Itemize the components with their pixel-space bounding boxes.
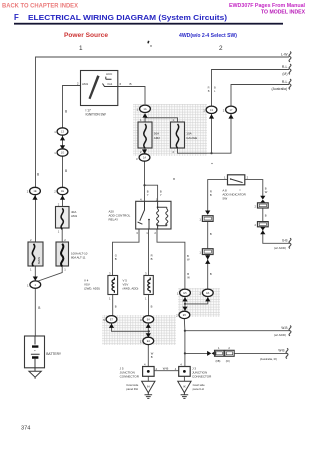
wire ignition switch AM1 feed xyxy=(63,86,81,128)
fuse 40A AM1 element xyxy=(61,208,63,229)
relay coil junction dots xyxy=(157,206,159,208)
connector 2 above battery xyxy=(30,281,41,288)
svg-text:2: 2 xyxy=(247,176,249,180)
svg-text:(w/ ADD): (w/ ADD) xyxy=(274,246,286,250)
svg-text:TO MODEL INDEX: TO MODEL INDEX xyxy=(261,10,305,16)
VSV V5 coil element xyxy=(148,278,150,293)
svg-text:RELAY: RELAY xyxy=(109,218,119,222)
svg-text:SW: SW xyxy=(222,197,227,201)
svg-text:2: 2 xyxy=(54,190,56,194)
junction dot ground rail left xyxy=(148,330,150,332)
svg-text:1E: 1E xyxy=(33,189,36,193)
svg-text:ELECTRICAL WIRING DIAGRAM (Sys: ELECTRICAL WIRING DIAGRAM (System Circui… xyxy=(28,13,228,22)
svg-text:W: W xyxy=(187,258,190,262)
svg-text:R: R xyxy=(210,190,212,194)
svg-text:CONNECTOR: CONNECTOR xyxy=(192,375,212,379)
svg-text:MAIN: MAIN xyxy=(37,257,41,264)
ground triangle IH xyxy=(142,381,155,393)
wire relay pin 3 to VSV V4 xyxy=(113,229,140,276)
bowtie arrows below left chain xyxy=(205,255,210,264)
VSV V5 box xyxy=(144,276,153,295)
svg-text:Y: Y xyxy=(147,193,149,197)
svg-text:B: B xyxy=(115,257,117,261)
svg-text:1: 1 xyxy=(79,45,83,52)
wire 40A AM1 fuse to ALT fusible link xyxy=(61,228,63,242)
shaded zone around fuses xyxy=(133,104,207,156)
svg-text:2: 2 xyxy=(219,45,223,52)
svg-text:W: W xyxy=(265,190,268,194)
wire V4 to connector E7 xyxy=(112,295,114,316)
wire J5 ground stub xyxy=(147,376,149,381)
inline connector ED left lower xyxy=(202,249,213,255)
arrow below connector 17 xyxy=(228,114,233,118)
bowtie arrows on W-B Australia wire xyxy=(207,351,216,356)
ground below battery xyxy=(29,368,41,379)
svg-text:2: 2 xyxy=(58,203,60,207)
svg-text:2: 2 xyxy=(64,238,66,242)
fuse 10A GAUGE box xyxy=(171,122,185,148)
svg-text:B: B xyxy=(65,110,67,114)
wire between ED boxes right chain xyxy=(262,208,264,222)
svg-text:B: B xyxy=(210,193,212,197)
svg-text:Power Source: Power Source xyxy=(64,33,109,39)
svg-text:1A: 1A xyxy=(143,107,146,111)
svg-text:1A: 1A xyxy=(143,156,146,160)
speck marks in diagram xyxy=(173,178,174,179)
svg-text:2: 2 xyxy=(30,238,32,242)
arrow below E5 xyxy=(182,297,187,301)
junction dot W-B ADD xyxy=(184,330,186,332)
svg-text:E5: E5 xyxy=(183,291,187,295)
arrow above connector E5 lower xyxy=(182,307,187,311)
svg-text:(4WD, ADD): (4WD, ADD) xyxy=(123,287,139,291)
wire J5 to J3 (W-B ground rail) xyxy=(154,370,179,372)
wire between ED boxes left chain xyxy=(207,221,209,248)
connector 1G ignition column lower xyxy=(57,149,68,156)
break symbol L-W wire xyxy=(289,52,291,62)
wire main bus left and top (battery feed, L-W) xyxy=(36,57,290,242)
arrow between ignition column connectors xyxy=(60,136,65,140)
svg-text:B: B xyxy=(151,257,153,261)
svg-text:(I/I): (I/I) xyxy=(226,359,230,363)
svg-text:(2WD, ADD): (2WD, ADD) xyxy=(84,287,100,291)
wire relay pin 4 to VSV V5 xyxy=(148,229,150,276)
bowtie arrows below right chain xyxy=(260,227,265,234)
connector E4 lower xyxy=(143,337,154,344)
svg-text:B: B xyxy=(37,173,39,177)
wire connector 13 down to gauge wire xyxy=(211,113,213,153)
fusible link MAIN box xyxy=(28,242,43,266)
wire E5 lower down to W-B branches and J3 xyxy=(183,318,186,366)
wire V5 to connector E4 xyxy=(148,295,150,316)
svg-text:IG1: IG1 xyxy=(108,82,113,86)
connector 1A (fuse feed) xyxy=(140,105,151,112)
fusible link MAIN element xyxy=(32,244,34,266)
svg-text:1: 1 xyxy=(218,346,220,350)
ignition switch ACC contact xyxy=(106,77,112,80)
connector 1A lower xyxy=(139,154,150,161)
wire E5 to ground junction xyxy=(185,296,208,304)
svg-text:EWD307F Pages From Manual: EWD307F Pages From Manual xyxy=(229,3,305,9)
svg-text:2: 2 xyxy=(77,82,79,86)
svg-text:B: B xyxy=(187,254,189,258)
wire R-L (I/I) xyxy=(212,70,290,114)
svg-text:B: B xyxy=(265,214,267,218)
svg-text:4: 4 xyxy=(144,362,146,366)
VSV V4 box xyxy=(108,276,118,295)
fusible link ALT element xyxy=(61,244,63,266)
svg-text:3: 3 xyxy=(136,231,138,235)
svg-text:1: 1 xyxy=(146,231,148,235)
wire W-B (w/ ADD) to right xyxy=(185,330,290,332)
svg-text:B: B xyxy=(65,169,67,173)
svg-text:W-B: W-B xyxy=(281,326,287,330)
svg-text:2: 2 xyxy=(228,346,230,350)
svg-text:AM2: AM2 xyxy=(154,136,161,140)
battery plates xyxy=(31,336,40,368)
svg-text:BATTERY: BATTERY xyxy=(46,352,62,356)
svg-text:1: 1 xyxy=(145,297,147,301)
chevron arrow on left chain xyxy=(205,210,210,214)
svg-text:2: 2 xyxy=(176,314,178,318)
svg-text:4: 4 xyxy=(180,362,182,366)
shaded zone around connectors E (right) xyxy=(178,288,220,317)
wire indicator sw left pin chain xyxy=(208,180,228,211)
svg-text:1: 1 xyxy=(199,218,201,222)
svg-text:B: B xyxy=(147,190,149,194)
svg-text:4WD(w/o 2-4 Select SW): 4WD(w/o 2-4 Select SW) xyxy=(179,33,237,39)
wire ignition IG1 to connector 1A xyxy=(118,87,145,105)
shaded zone around connectors E (left) xyxy=(102,315,176,345)
svg-text:4: 4 xyxy=(140,197,142,201)
svg-text:1E: 1E xyxy=(61,189,64,193)
connector 17 (R-L Australia wire) xyxy=(226,106,237,113)
ground triangle IK xyxy=(178,381,191,393)
svg-text:panel RH: panel RH xyxy=(126,387,138,391)
svg-text:W-B: W-B xyxy=(278,349,284,353)
inline connector ED left upper xyxy=(202,216,213,222)
fusible link ALT box xyxy=(56,242,69,266)
arrow below E4 xyxy=(146,324,151,328)
junction dot on gauge wire xyxy=(210,152,212,154)
svg-text:1: 1 xyxy=(54,151,56,155)
junction connector J3 box xyxy=(179,367,191,377)
break symbol G-B wire xyxy=(289,238,291,248)
svg-text:1G: 1G xyxy=(61,151,64,155)
svg-text:E5: E5 xyxy=(183,313,187,317)
relay A20 box xyxy=(136,201,171,229)
svg-text:W: W xyxy=(187,276,190,280)
wire indicator sw right pin chain xyxy=(245,180,263,199)
svg-text:(Australia): (Australia) xyxy=(272,87,287,91)
svg-text:B: B xyxy=(208,89,210,93)
wire right chain to G-B break xyxy=(263,227,290,244)
svg-text:E4: E4 xyxy=(147,339,151,343)
arrow below main bus connector xyxy=(32,195,37,199)
svg-text:B: B xyxy=(151,355,153,359)
wire ALT fusible link to battery junction xyxy=(37,266,62,282)
svg-text:E6: E6 xyxy=(206,291,210,295)
break symbol W-B ADD wire xyxy=(289,326,291,336)
svg-text:F: F xyxy=(14,13,19,22)
svg-text:ACC: ACC xyxy=(106,72,113,76)
break symbol W-B Australia wire xyxy=(286,348,288,358)
ground bars IH xyxy=(145,393,153,399)
svg-text:B: B xyxy=(115,305,117,309)
speck marks xyxy=(147,41,149,44)
svg-text:4: 4 xyxy=(175,367,177,371)
connector E7 below V4 xyxy=(106,316,117,323)
svg-text:1: 1 xyxy=(224,176,226,180)
inline connector ED right lower xyxy=(258,222,269,227)
fuse 40A AM1 box xyxy=(56,207,70,229)
connector E6 xyxy=(202,289,213,296)
arrow above connector E4 lower xyxy=(146,333,151,337)
svg-text:374: 374 xyxy=(21,426,30,432)
wire connector to 40A AM1 fuse xyxy=(62,195,64,207)
relay coil xyxy=(157,201,168,229)
wire 1G connector to fuse AM1 xyxy=(62,156,64,187)
connector 1E ignition column xyxy=(57,187,68,194)
svg-text:2: 2 xyxy=(27,190,29,194)
wire between inline connectors to right break xyxy=(234,352,287,354)
indicator switch contact xyxy=(231,179,243,183)
relay switch pole dot xyxy=(148,219,150,221)
wire between connectors 1A/1G xyxy=(62,135,64,149)
svg-text:(w/ ADD): (w/ ADD) xyxy=(274,333,286,337)
svg-text:1: 1 xyxy=(64,268,66,272)
connector E4 below V5 xyxy=(143,316,154,323)
wire W-B (Australia) branch xyxy=(185,352,209,354)
svg-text:E7: E7 xyxy=(110,318,114,322)
junction dot E group xyxy=(184,303,186,305)
svg-text:IK: IK xyxy=(183,385,186,389)
svg-text:3: 3 xyxy=(109,272,111,276)
inline connector (I/I) box xyxy=(225,350,234,356)
svg-text:IGNITION SW: IGNITION SW xyxy=(86,113,106,117)
svg-text:AM1: AM1 xyxy=(71,214,78,218)
ignition switch I17 box xyxy=(81,71,118,106)
svg-text:B: B xyxy=(210,232,212,236)
svg-text:3: 3 xyxy=(145,272,147,276)
wire branch to relay coil pin 1 xyxy=(145,185,158,201)
svg-text:B: B xyxy=(265,187,267,191)
arrow below connector 13 xyxy=(209,114,214,118)
junction dot W-B Australia xyxy=(184,352,186,354)
svg-text:1: 1 xyxy=(30,268,32,272)
svg-text:2: 2 xyxy=(255,223,257,227)
relay switch contact xyxy=(138,201,149,229)
wire junction to connector E5 lower xyxy=(184,304,186,311)
junction connector J5 box xyxy=(143,367,155,377)
connector E5 xyxy=(180,289,191,296)
svg-text:B: B xyxy=(130,82,132,86)
svg-text:BACK TO CHAPTER INDEX: BACK TO CHAPTER INDEX xyxy=(2,3,79,10)
arrow below connector 1A xyxy=(142,113,147,117)
svg-text:1: 1 xyxy=(199,251,201,255)
svg-text:B: B xyxy=(151,305,153,309)
svg-text:3: 3 xyxy=(136,157,138,161)
fuse 50A AM2 box xyxy=(138,122,152,148)
fuse 50A AM2 element xyxy=(144,124,146,148)
arrow above connector 1G xyxy=(60,145,65,149)
wire battery junction connector to battery xyxy=(34,288,36,336)
wire connector to relay branch junction xyxy=(144,161,146,201)
svg-text:E4: E4 xyxy=(147,318,151,322)
svg-text:B: B xyxy=(187,272,189,276)
title underline rule xyxy=(14,23,283,25)
shading xyxy=(102,104,220,345)
arrow below E7 xyxy=(109,324,114,328)
svg-text:AM1: AM1 xyxy=(82,82,89,86)
ground bars IK xyxy=(181,393,189,399)
wire left chain to connector E6 xyxy=(207,255,209,290)
wire junction feeding GAUGE fuse xyxy=(145,118,178,122)
svg-text:B: B xyxy=(38,306,40,310)
svg-text:4: 4 xyxy=(156,367,158,371)
indicator switch A8 box xyxy=(228,175,245,185)
svg-text:G-B: G-B xyxy=(282,239,288,243)
svg-text:2: 2 xyxy=(154,231,156,235)
svg-text:GAUGE: GAUGE xyxy=(186,136,197,140)
svg-text:CONNECTOR: CONNECTOR xyxy=(120,375,140,379)
svg-text:(Australia, I/I): (Australia, I/I) xyxy=(260,357,277,361)
connector 1A ignition column upper xyxy=(57,128,68,135)
svg-text:(I/I): (I/I) xyxy=(282,72,287,76)
svg-text:2: 2 xyxy=(255,204,257,208)
connector E5 lower xyxy=(179,311,190,318)
svg-text:L-W: L-W xyxy=(281,52,288,56)
svg-text:W-B: W-B xyxy=(163,367,169,371)
inline connector ED right upper xyxy=(258,203,269,208)
svg-text:6: 6 xyxy=(120,82,122,86)
connector 1E main bus xyxy=(30,187,41,194)
wire MAIN fusible link to battery junction xyxy=(34,266,36,281)
svg-text:80A ALT-11: 80A ALT-11 xyxy=(71,256,86,260)
svg-text:1: 1 xyxy=(58,230,60,234)
arrow above connector 1A lower xyxy=(142,149,147,153)
svg-text:Y: Y xyxy=(160,193,162,197)
break symbol R-L wire xyxy=(289,64,291,74)
svg-text:1: 1 xyxy=(109,297,111,301)
inline connector (I/B) box xyxy=(215,350,224,356)
arrow below E6 xyxy=(205,297,210,301)
svg-text:B: B xyxy=(160,190,162,194)
wire connector to fuse top junction xyxy=(144,114,146,122)
wire AM2 fuse to connector 1A lower xyxy=(144,148,146,154)
svg-text:R-L: R-L xyxy=(282,65,288,69)
arrow above battery junction connector xyxy=(33,277,38,281)
arrow below connector 1E xyxy=(60,195,65,199)
bowtie arrows right chain top xyxy=(260,196,265,203)
connector 13 (R-L wire) xyxy=(206,106,217,113)
wire relay pin 2 to connector E5 xyxy=(157,229,185,289)
fuse 10A GAUGE element xyxy=(176,124,178,148)
ignition switch lever xyxy=(89,75,100,99)
VSV V4 coil element xyxy=(112,278,114,293)
wire R-L (Australia) xyxy=(231,85,289,114)
junction dot relay branch xyxy=(143,184,145,186)
wire GAUGE fuse to indicator sw connectors xyxy=(178,113,232,153)
wire J3 ground stub xyxy=(183,376,185,381)
svg-text:1: 1 xyxy=(27,283,29,287)
wire connector E4 lower to junction connector J5 xyxy=(147,345,149,367)
svg-text:1: 1 xyxy=(54,130,56,134)
wire E4 to junction xyxy=(147,323,149,337)
ignition switch IG1 inner wire xyxy=(103,84,118,87)
svg-text:panel LH: panel LH xyxy=(193,387,204,391)
svg-text:(I/B): (I/B) xyxy=(216,359,221,363)
wire E7 to ground rail xyxy=(112,323,149,331)
svg-text:B: B xyxy=(210,272,212,276)
svg-text:W: W xyxy=(151,352,154,356)
svg-text:R-L: R-L xyxy=(282,80,288,84)
svg-text:2: 2 xyxy=(223,109,225,113)
svg-text:IH: IH xyxy=(147,385,150,389)
battery box xyxy=(25,336,45,368)
break symbol R-L Australia wire xyxy=(289,79,291,89)
wire E6 down xyxy=(207,296,209,304)
